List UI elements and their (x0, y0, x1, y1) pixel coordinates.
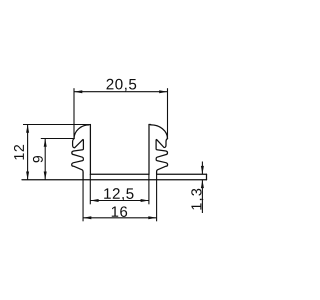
right wall top edge (149, 124, 151, 126)
right flange top (157, 173, 207, 175)
right wall hook lip and barbs (156, 139, 168, 175)
right wall outer corner arc (151, 125, 168, 139)
right wall inner face (148, 125, 150, 175)
dimension 16 bottom outer (82, 172, 84, 222)
dimension 20,5 top (74, 91, 168, 93)
dimension 1,3 right flange (201, 162, 203, 175)
left wall inner face (89, 125, 91, 175)
left wall hook lip and barbs (72, 139, 84, 180)
dimension 12,5 bottom inner (89, 174, 91, 204)
base bottom line (also extension for 12/9) (22, 179, 207, 181)
left wall outer corner arc (74, 125, 89, 139)
channel floor (90, 173, 149, 175)
profile: wall top edge + 12-extension line (23, 124, 91, 126)
dimension 9 left (41, 138, 75, 140)
dimension 12 left (27, 125, 29, 180)
flange end cap (206, 174, 208, 180)
